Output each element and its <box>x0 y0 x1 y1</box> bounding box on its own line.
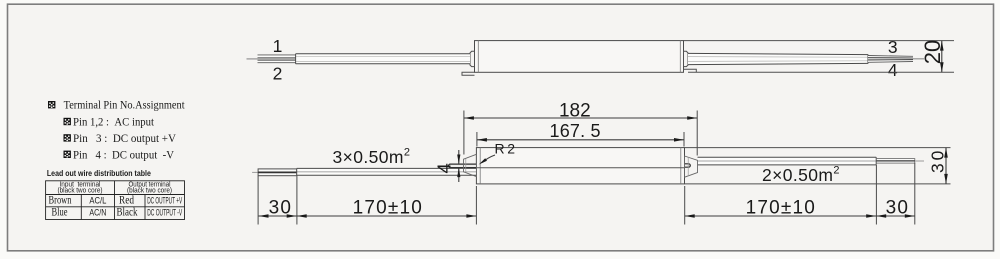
R2 radius callout <box>479 141 516 165</box>
dimension 30 right line with arrows <box>876 214 915 218</box>
dimension text 30 left <box>269 197 293 218</box>
dimension text 30 right <box>886 197 910 218</box>
table cell Red <box>119 192 134 206</box>
right slot / wire clamp stub (top view) <box>685 164 691 167</box>
note line: Pin 4 DC output -V <box>73 150 175 162</box>
note symbol 4 <box>64 151 71 158</box>
input wire stripped conductors (top view) <box>258 169 297 176</box>
dimension 30 vertical extension lines <box>685 148 951 184</box>
pin label 1 <box>273 36 283 56</box>
svg-text:AC/L: AC/L <box>89 195 106 206</box>
note symbol 1 <box>48 101 55 108</box>
dimension text 170+-10 right <box>746 197 816 218</box>
left cable gland (side view) <box>470 51 475 66</box>
dimension text 4 (rotated) <box>434 163 455 173</box>
dimension 30 left line with arrows <box>259 214 297 218</box>
table header output terminal <box>127 181 172 194</box>
table cell Brown <box>49 192 72 206</box>
output wire stripped conductors (top view) <box>876 159 914 164</box>
left mounting ear (top view) <box>464 154 477 176</box>
output wire sheath (top view) <box>698 157 877 165</box>
table grid <box>46 181 185 220</box>
dimension text 167.5 <box>550 121 601 141</box>
dimension text 170+-10 left <box>353 197 423 218</box>
output wire bare tip (top view) <box>915 160 924 162</box>
table cell DC OUTPUT -V <box>147 208 182 218</box>
svg-text:2×0.50m2: 2×0.50m2 <box>762 165 840 186</box>
left mounting foot (side view) <box>462 72 475 75</box>
svg-text:Terminal Pin No.Assignment: Terminal Pin No.Assignment <box>64 99 186 111</box>
left slot / wire clamp (top view) <box>448 164 476 168</box>
svg-text:4: 4 <box>888 60 898 80</box>
body (side view) <box>475 41 684 73</box>
table cell Black <box>117 205 138 219</box>
dimension 167.5 line with arrows <box>477 138 684 142</box>
svg-text:182: 182 <box>559 101 591 122</box>
dimension text 182 <box>559 101 591 122</box>
svg-text:170±10: 170±10 <box>353 197 423 218</box>
input wire bare tip (top view) <box>252 171 258 173</box>
svg-text:Pin 4 : DC output -V: Pin 4 : DC output -V <box>73 150 175 162</box>
dimension 20 extension lines <box>684 41 955 73</box>
svg-text:Black: Black <box>117 205 138 219</box>
note symbol 2 <box>64 118 71 125</box>
dimension 30 vertical line with arrows <box>944 148 948 184</box>
dimension 20 line with arrows <box>940 41 944 73</box>
svg-text:DC OUTPUT +V: DC OUTPUT +V <box>147 195 182 205</box>
output wire size label 2x0.50m2 <box>762 165 840 186</box>
svg-text:AC/N: AC/N <box>89 208 106 219</box>
svg-text:30: 30 <box>886 197 910 218</box>
svg-text:Pin 1,2 : AC input: Pin 1,2 : AC input <box>73 116 155 128</box>
input wire sheath (top view) <box>297 168 476 175</box>
input wire bare tip (side view) <box>247 58 258 60</box>
pin label 4 <box>888 60 898 80</box>
svg-text:30: 30 <box>269 197 293 218</box>
table cell AC/L <box>89 195 106 206</box>
body (top view) <box>476 148 684 184</box>
right cable gland (side view) <box>684 51 689 66</box>
output wire two-core section (side view) <box>868 55 913 62</box>
right mounting ear (top view) <box>685 156 698 177</box>
table title <box>47 168 151 178</box>
dimension 170+-10 left line with arrows <box>297 214 477 218</box>
svg-text:170±10: 170±10 <box>746 197 816 218</box>
svg-text:DC OUTPUT -V: DC OUTPUT -V <box>147 208 182 218</box>
table cell DC OUTPUT +V <box>147 195 182 205</box>
svg-text:2: 2 <box>273 63 283 83</box>
svg-text:Lead out wire distribution tab: Lead out wire distribution table <box>47 168 151 178</box>
svg-text:Pin 3 : DC output +V: Pin 3 : DC output +V <box>73 133 177 145</box>
note line: Pin 3 DC output +V <box>73 133 177 145</box>
svg-text:1: 1 <box>273 36 283 56</box>
table cell Blue <box>52 205 68 219</box>
input wire sheath (side view) <box>296 54 470 64</box>
note line: Terminal Pin No.Assignment <box>64 99 186 111</box>
dimension 167.5 extension lines <box>477 132 684 147</box>
dimension 170+-10 right line with arrows <box>685 214 877 218</box>
svg-text:3: 3 <box>888 37 898 57</box>
dimension 182 extension lines <box>464 111 697 156</box>
note line: Pin 1,2 AC input <box>73 116 155 128</box>
body seam line (top view) <box>476 167 684 169</box>
right mounting foot (side view) <box>684 69 697 72</box>
input wire two-core section (side view) <box>258 55 296 63</box>
note symbol 3 <box>64 134 71 141</box>
svg-text:Blue: Blue <box>52 205 68 219</box>
dimension 4 (slot width) <box>457 150 460 182</box>
svg-text:167. 5: 167. 5 <box>550 121 601 141</box>
dimension 182 line with arrows <box>464 116 697 120</box>
pin label 2 <box>273 63 283 83</box>
dimension text 20 (rotated) <box>920 40 945 64</box>
table cell AC/N <box>89 208 106 219</box>
output wire sheath (side view) <box>688 53 868 64</box>
input wire size label 3x0.50m2 <box>333 147 411 168</box>
svg-text:20: 20 <box>920 40 945 64</box>
svg-text:4: 4 <box>434 163 455 173</box>
output wire bare tip (side view) <box>913 58 924 60</box>
table header input terminal <box>58 181 103 194</box>
svg-text:3×0.50m2: 3×0.50m2 <box>333 147 411 168</box>
pin label 3 <box>888 37 898 57</box>
dimension text 30 vertical (rotated) <box>928 151 948 173</box>
bottom dimension extension lines <box>258 163 915 225</box>
